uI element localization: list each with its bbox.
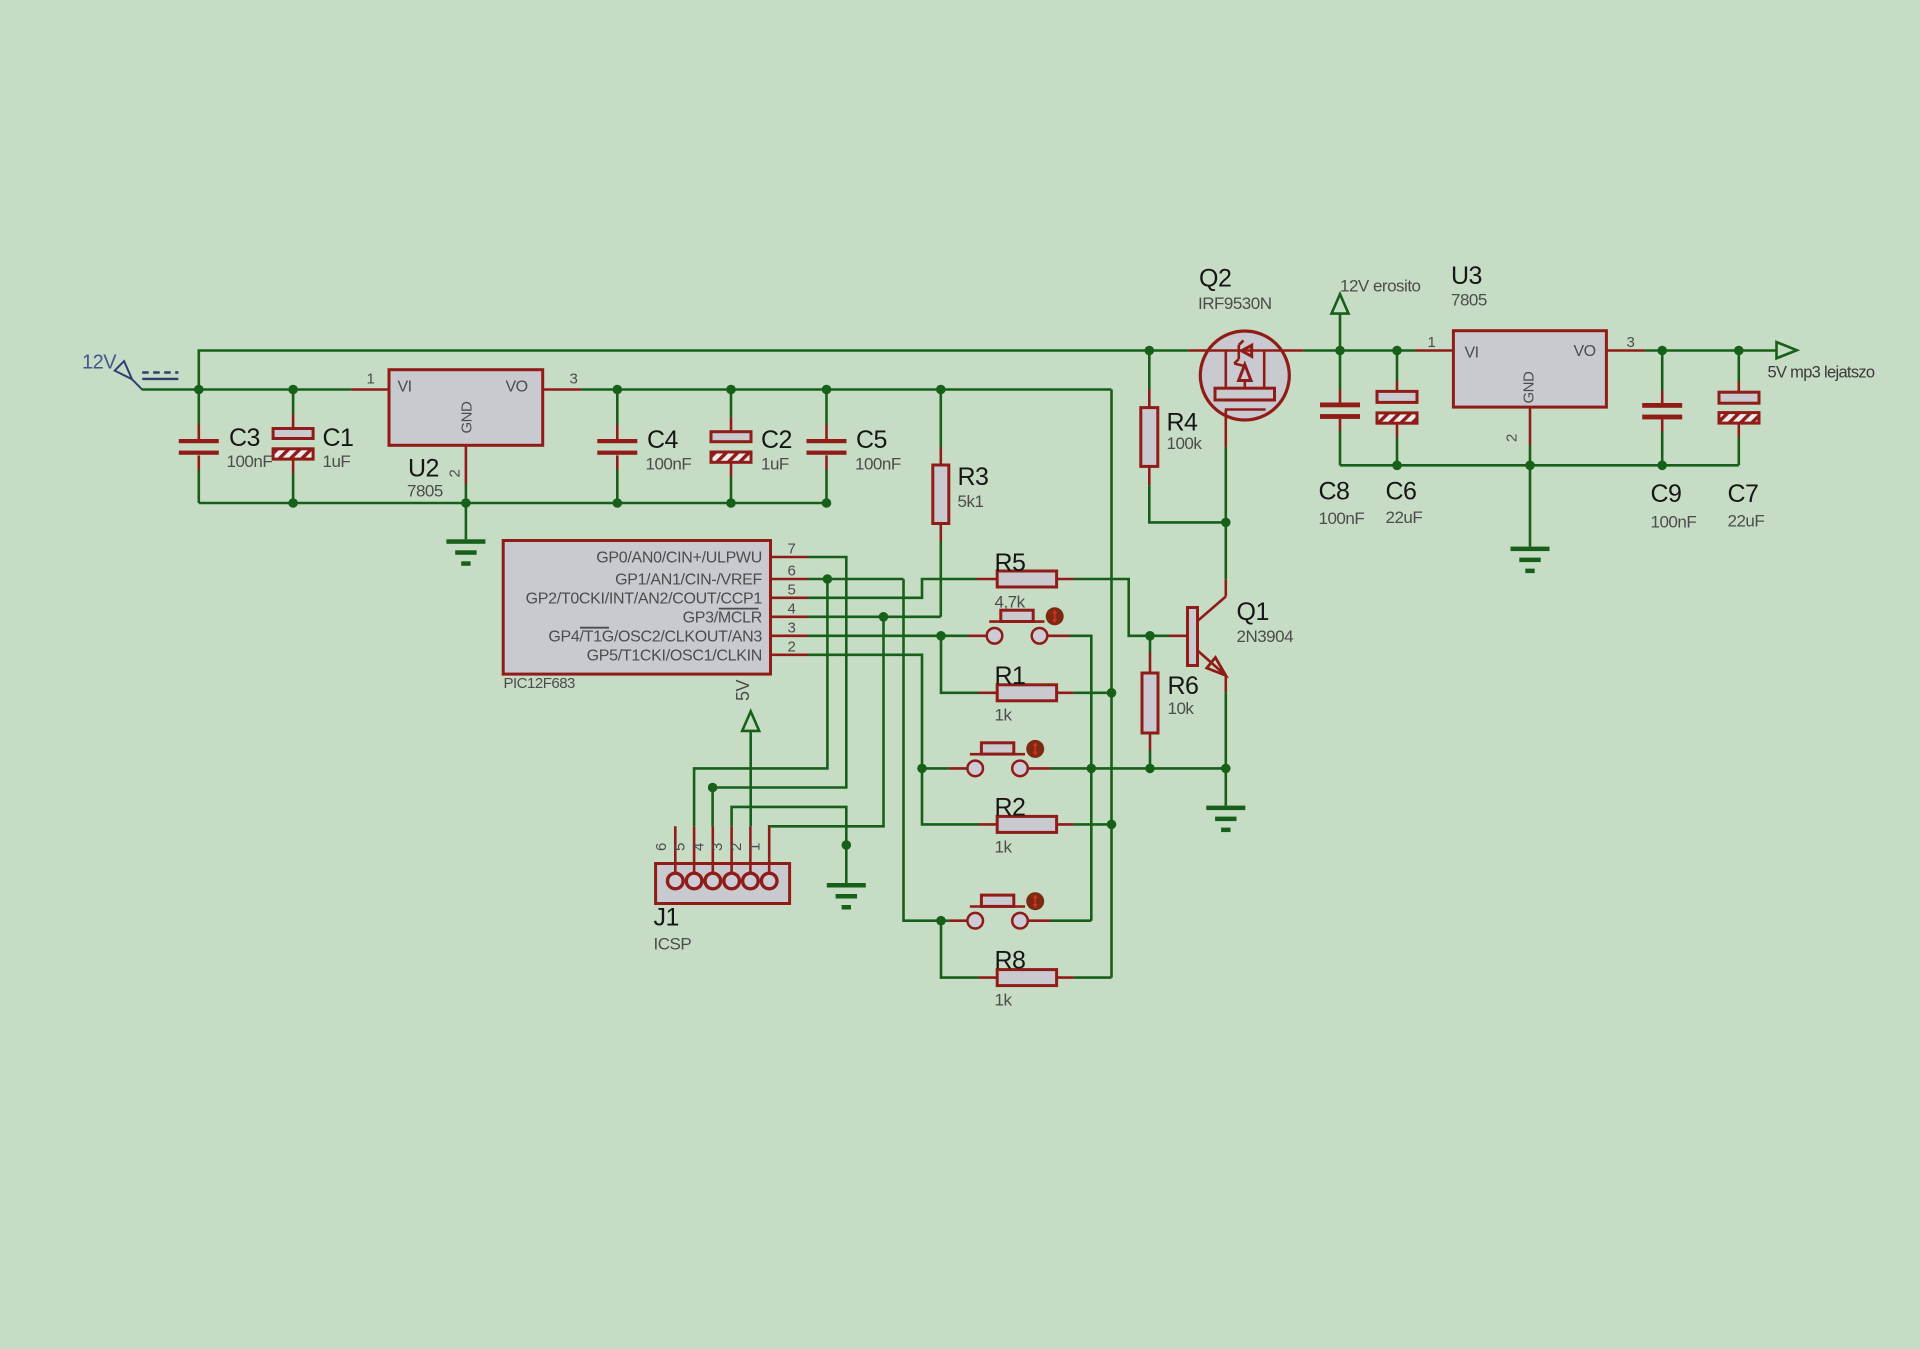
svg-text:12V: 12V bbox=[82, 352, 117, 374]
wire GP3 to J1 pin1 bbox=[769, 617, 883, 827]
svg-text:R4: R4 bbox=[1167, 409, 1199, 437]
svg-text:1k: 1k bbox=[995, 706, 1013, 725]
junction Q1 emitter bbox=[1221, 764, 1231, 774]
capacitor C9 bbox=[1642, 403, 1682, 419]
svg-text:GP1/AN1/CIN-/VREF: GP1/AN1/CIN-/VREF bbox=[615, 572, 762, 589]
label C7 value 22uF bbox=[1728, 512, 1765, 531]
supply 5V symbol bbox=[733, 679, 759, 730]
junction C9 bottom bbox=[1657, 461, 1667, 471]
U2 pin 2 GND bbox=[465, 445, 468, 484]
pushbutton S3 bbox=[949, 892, 1051, 928]
svg-text:6: 6 bbox=[653, 843, 670, 851]
label U2 pin 2 bbox=[447, 470, 464, 478]
svg-text:VI: VI bbox=[398, 379, 412, 396]
svg-text:R6: R6 bbox=[1168, 672, 1199, 700]
wire GP0 to ICSPDAT bbox=[713, 557, 847, 788]
PIC pin 4 bbox=[771, 600, 809, 617]
pushbutton S1 bbox=[968, 607, 1070, 643]
label U2 pin 1 bbox=[367, 371, 375, 388]
capacitor C2 bbox=[711, 432, 751, 463]
junction C1 top bbox=[288, 385, 298, 395]
wire GP5 to R2 bbox=[922, 768, 979, 824]
svg-text:7805: 7805 bbox=[407, 482, 443, 501]
svg-text:3: 3 bbox=[709, 843, 726, 851]
svg-text:R2: R2 bbox=[995, 794, 1026, 822]
wire 5V to J1 pin2 bbox=[749, 731, 752, 826]
PIC pin 6 bbox=[771, 563, 809, 580]
svg-text:Q1: Q1 bbox=[1237, 598, 1269, 626]
svg-text:2: 2 bbox=[447, 470, 464, 478]
resistor R8 bbox=[979, 970, 1074, 986]
PIC pin 3 bbox=[771, 619, 809, 636]
capacitor C7 bbox=[1719, 392, 1759, 423]
wire Q2 gate to Q1 collector bbox=[1225, 447, 1228, 580]
svg-text:100nF: 100nF bbox=[1651, 513, 1697, 532]
wire C2 top lead bbox=[730, 390, 733, 432]
label R4 bbox=[1167, 409, 1199, 437]
svg-text:5k1: 5k1 bbox=[958, 492, 984, 511]
label U3 pin 1 bbox=[1428, 334, 1436, 351]
wire U2 ground stem bbox=[465, 503, 468, 539]
label Q2 value IRF9530N bbox=[1198, 294, 1271, 313]
svg-text:5V mp3 lejatszo: 5V mp3 lejatszo bbox=[1768, 364, 1875, 382]
wire Q1 emitter to ground bbox=[1225, 692, 1228, 768]
wire ground bus right bbox=[1340, 464, 1739, 467]
label R2 bbox=[995, 794, 1026, 822]
svg-text:2: 2 bbox=[1504, 434, 1521, 442]
label R5 bbox=[995, 549, 1026, 577]
junction S2 right bbox=[1087, 764, 1097, 774]
junction C8 top bbox=[1335, 346, 1345, 356]
wire C8 bottom lead bbox=[1339, 419, 1342, 465]
label C4 bbox=[647, 426, 679, 454]
wire U3 GND to bus bbox=[1529, 445, 1532, 465]
pushbutton S2 bbox=[949, 740, 1051, 776]
wire S1 right drop bbox=[1070, 636, 1091, 921]
label C6 value 22uF bbox=[1386, 508, 1423, 527]
label J1 value ICSP bbox=[654, 935, 692, 954]
svg-text:4: 4 bbox=[788, 600, 796, 617]
junction R6 ground bbox=[1145, 764, 1155, 774]
svg-text:2: 2 bbox=[788, 638, 796, 655]
svg-text:C8: C8 bbox=[1319, 478, 1350, 506]
J1 pin 5 bbox=[672, 826, 695, 873]
label 12V erosito bbox=[1340, 277, 1421, 296]
junction C4 bottom bbox=[613, 498, 623, 508]
svg-text:J1: J1 bbox=[654, 904, 679, 932]
wire C8 top lead bbox=[1339, 351, 1342, 403]
junction GP3 bbox=[879, 612, 889, 622]
svg-text:GP5/T1CKI/OSC1/CLKIN: GP5/T1CKI/OSC1/CLKIN bbox=[587, 647, 762, 664]
J1 pin 4 bbox=[690, 826, 713, 873]
label C4 value 100nF bbox=[646, 455, 692, 474]
label Q1 bbox=[1237, 598, 1269, 626]
svg-text:4,7k: 4,7k bbox=[995, 593, 1026, 612]
ground under Q1 bbox=[1206, 806, 1245, 833]
svg-text:R1: R1 bbox=[995, 662, 1026, 690]
svg-text:GP3/MCLR: GP3/MCLR bbox=[683, 609, 762, 626]
resistor R4 bbox=[1141, 408, 1158, 467]
wire GP4 to R1 bbox=[941, 636, 979, 693]
svg-text:U3: U3 bbox=[1451, 262, 1482, 290]
wire 12V input bbox=[142, 388, 199, 391]
junction GP4 bbox=[936, 631, 946, 641]
svg-text:VI: VI bbox=[1465, 345, 1479, 362]
label 5V mp3 lejatszo bbox=[1768, 364, 1875, 382]
wire R4 top lead bbox=[1148, 351, 1151, 408]
wire S3 right bbox=[1051, 919, 1092, 922]
svg-text:4: 4 bbox=[690, 843, 707, 851]
svg-text:C6: C6 bbox=[1386, 478, 1417, 506]
label C6 bbox=[1386, 478, 1417, 506]
junction C7 top bbox=[1734, 346, 1744, 356]
label R6 bbox=[1168, 672, 1199, 700]
wire GP5 row bbox=[808, 655, 922, 769]
junction C2 top bbox=[726, 385, 736, 395]
label R6 value 10k bbox=[1168, 699, 1195, 718]
label R2 value 1k bbox=[995, 838, 1013, 857]
wire C7 top lead bbox=[1738, 351, 1741, 393]
PIC pin 2 bbox=[771, 638, 809, 655]
label C9 value 100nF bbox=[1651, 513, 1697, 532]
wire U2 GND to bus bbox=[465, 484, 468, 503]
junction Q1 base node bbox=[1145, 631, 1155, 641]
wire C6 top lead bbox=[1396, 351, 1399, 392]
wire R3 bottom lead bbox=[939, 524, 942, 617]
wire VO rail 5V bbox=[581, 388, 1111, 391]
label U3 bbox=[1451, 262, 1482, 290]
label C3 value 100nF bbox=[227, 452, 273, 471]
resistor R1 bbox=[979, 685, 1074, 701]
PIC pin 7 bbox=[771, 541, 809, 558]
label C5 bbox=[856, 426, 887, 454]
wire C9 bottom lead bbox=[1661, 419, 1664, 465]
wire 5V output rail bbox=[1645, 349, 1776, 352]
junction U2 GND bbox=[461, 498, 471, 508]
wire C3 top lead bbox=[198, 390, 201, 425]
wire GP1 row bbox=[808, 578, 904, 581]
wire GP3 row bbox=[808, 615, 941, 618]
wire to U2 VI bbox=[199, 388, 351, 391]
svg-text:3: 3 bbox=[788, 619, 796, 636]
label U2 bbox=[408, 455, 439, 483]
svg-text:U2: U2 bbox=[408, 455, 439, 483]
svg-text:100nF: 100nF bbox=[1319, 509, 1365, 528]
svg-text:C2: C2 bbox=[761, 426, 792, 454]
svg-text:22uF: 22uF bbox=[1728, 512, 1765, 531]
transistor Q2 IRF9530N bbox=[1188, 331, 1303, 447]
svg-text:2N3904: 2N3904 bbox=[1237, 627, 1294, 646]
wire GP1 to button S3 bbox=[904, 579, 942, 921]
svg-text:C1: C1 bbox=[323, 424, 354, 452]
svg-text:ICSP: ICSP bbox=[654, 935, 692, 954]
wire C9 top lead bbox=[1661, 351, 1664, 404]
12V input port bbox=[115, 361, 179, 390]
svg-text:1: 1 bbox=[1428, 334, 1436, 351]
resistor R3 bbox=[933, 465, 949, 524]
transistor Q1 2N3904 bbox=[1170, 579, 1226, 692]
svg-text:PIC12F683: PIC12F683 bbox=[504, 675, 576, 692]
IC PIC12F683 bbox=[503, 541, 770, 675]
wire R4 bottom to gate bbox=[1149, 466, 1226, 522]
resistor R5 bbox=[977, 571, 1074, 587]
J1 pin 1 bbox=[747, 826, 770, 873]
svg-text:Q2: Q2 bbox=[1199, 265, 1231, 293]
junction U3 GND bbox=[1525, 461, 1535, 471]
junction C1 bottom bbox=[288, 498, 298, 508]
svg-text:1k: 1k bbox=[995, 838, 1013, 857]
label U3 pin 3 bbox=[1627, 334, 1635, 351]
wire R2 to 5V rail bbox=[1074, 823, 1112, 826]
svg-text:GND: GND bbox=[1521, 371, 1538, 404]
junction Q2 gate node bbox=[1221, 518, 1231, 528]
U3 pin 3 VO bbox=[1606, 349, 1645, 352]
label PIC12F683 bbox=[504, 675, 576, 692]
wire C5 bottom lead bbox=[825, 455, 828, 503]
wire C7 bottom lead bbox=[1738, 423, 1741, 465]
label Q2 bbox=[1199, 265, 1231, 293]
svg-text:10k: 10k bbox=[1168, 699, 1195, 718]
svg-text:5V: 5V bbox=[733, 679, 753, 701]
PIC pin 5 bbox=[771, 581, 809, 598]
wire C4 bottom lead bbox=[616, 455, 619, 503]
label U3 pin 2 bbox=[1504, 434, 1521, 442]
svg-text:1uF: 1uF bbox=[761, 455, 789, 474]
resistor R2 bbox=[979, 816, 1074, 832]
wire Q1 emitter ground stem bbox=[1225, 768, 1228, 805]
junction ICSPDAT bbox=[708, 783, 718, 793]
svg-text:12V erosito: 12V erosito bbox=[1340, 277, 1421, 296]
wire 5V vertical rail bbox=[1110, 390, 1113, 978]
wire R3 top lead bbox=[939, 390, 942, 466]
wire 12V top bus bbox=[199, 351, 1188, 390]
wire R1 to 5V rail bbox=[1074, 691, 1112, 694]
connector J1 ICSP bbox=[656, 864, 790, 904]
label Q1 value 2N3904 bbox=[1237, 627, 1294, 646]
svg-text:VO: VO bbox=[1574, 343, 1596, 360]
svg-text:100nF: 100nF bbox=[855, 455, 901, 474]
U2 pin 3 VO bbox=[543, 388, 582, 391]
J1 pin 6 bbox=[653, 826, 676, 873]
svg-text:1uF: 1uF bbox=[323, 452, 351, 471]
wire ground row bbox=[1051, 767, 1226, 770]
label R8 value 1k bbox=[995, 991, 1013, 1010]
regulator U2 7805 bbox=[389, 370, 543, 446]
wire ground bus left bbox=[199, 502, 827, 505]
svg-text:22uF: 22uF bbox=[1386, 508, 1423, 527]
junction R2 5V bbox=[1107, 820, 1117, 830]
junction R4 top bbox=[1145, 346, 1155, 356]
junction R3 top bbox=[936, 385, 946, 395]
junction C5 bottom bbox=[822, 498, 832, 508]
capacitor C5 bbox=[807, 439, 847, 455]
label U2 pin 3 bbox=[570, 371, 578, 388]
wire GP4 row bbox=[808, 634, 941, 637]
wire R6 bottom lead bbox=[1149, 733, 1152, 768]
label R1 value 1k bbox=[995, 706, 1013, 725]
svg-text:GP2/T0CKI/INT/AN2/COUT/CCP1: GP2/T0CKI/INT/AN2/COUT/CCP1 bbox=[526, 590, 763, 607]
wire J1 pin3 to ground bbox=[732, 807, 847, 883]
wire GP2 to R5 bbox=[808, 579, 977, 598]
svg-text:GP0/AN0/CIN+/ULPWU: GP0/AN0/CIN+/ULPWU bbox=[596, 550, 762, 567]
junction C6 bottom bbox=[1392, 461, 1402, 471]
label C3 bbox=[229, 424, 260, 452]
ground under U3 bbox=[1511, 547, 1550, 574]
wire S3 to R8 bbox=[941, 921, 979, 978]
wire C1 bottom lead bbox=[292, 459, 295, 503]
wire Q2 drain to U3 bbox=[1304, 349, 1415, 352]
junction ground stem bbox=[842, 840, 852, 850]
U3 pin 2 GND bbox=[1529, 407, 1532, 445]
capacitor C3 bbox=[179, 425, 219, 471]
wire R5 right to Q1 base bbox=[1074, 579, 1170, 636]
wire U3 ground stem bbox=[1529, 465, 1532, 546]
label C9 bbox=[1651, 480, 1682, 508]
svg-text:5: 5 bbox=[672, 843, 689, 851]
label U3 value 7805 bbox=[1451, 291, 1487, 310]
label C7 bbox=[1728, 480, 1759, 508]
U2 pin 1 VI bbox=[351, 388, 389, 391]
wire C2 bottom lead bbox=[730, 462, 733, 503]
svg-text:C5: C5 bbox=[856, 426, 887, 454]
svg-text:GP4/T1G/OSC2/CLKOUT/AN3: GP4/T1G/OSC2/CLKOUT/AN3 bbox=[548, 628, 762, 645]
label C2 bbox=[761, 426, 792, 454]
5V output port bbox=[1777, 342, 1797, 358]
svg-text:100nF: 100nF bbox=[227, 452, 273, 471]
wire C1 top lead bbox=[292, 390, 295, 429]
junction C2 bottom bbox=[726, 498, 736, 508]
svg-text:1: 1 bbox=[747, 843, 764, 851]
wire R6 top lead bbox=[1149, 636, 1152, 673]
junction C4 top bbox=[613, 385, 623, 395]
U3 pin 1 VI bbox=[1415, 349, 1454, 352]
J1 pin 3 bbox=[709, 826, 732, 873]
label C8 value 100nF bbox=[1319, 509, 1365, 528]
junction GP5 button bbox=[917, 764, 927, 774]
wire C6 bottom lead bbox=[1396, 423, 1399, 465]
label C5 value 100nF bbox=[855, 455, 901, 474]
label U2 value 7805 bbox=[407, 482, 443, 501]
svg-text:100k: 100k bbox=[1167, 434, 1203, 453]
svg-text:GND: GND bbox=[459, 401, 476, 434]
ground near J1 bbox=[827, 883, 866, 910]
svg-text:5: 5 bbox=[788, 581, 796, 598]
wire S1 left bbox=[941, 634, 968, 637]
junction C5 top bbox=[822, 385, 832, 395]
label R8 bbox=[995, 947, 1026, 975]
svg-text:VO: VO bbox=[506, 379, 528, 396]
svg-text:7805: 7805 bbox=[1451, 291, 1487, 310]
svg-text:6: 6 bbox=[788, 563, 796, 580]
regulator U3 7805 bbox=[1453, 331, 1606, 407]
label C2 value 1uF bbox=[761, 455, 789, 474]
svg-text:C3: C3 bbox=[229, 424, 260, 452]
svg-text:1: 1 bbox=[367, 371, 375, 388]
label C8 bbox=[1319, 478, 1350, 506]
capacitor C6 bbox=[1377, 391, 1417, 423]
capacitor C1 bbox=[273, 429, 313, 460]
label R1 bbox=[995, 662, 1026, 690]
label C1 value 1uF bbox=[323, 452, 351, 471]
svg-text:R5: R5 bbox=[995, 549, 1026, 577]
label R3 value 5k1 bbox=[958, 492, 984, 511]
wire C5 top lead bbox=[825, 390, 828, 440]
label C1 bbox=[323, 424, 354, 452]
wire J1 pin4 drop bbox=[711, 788, 714, 827]
wire S3 left bbox=[941, 919, 949, 922]
svg-text:C9: C9 bbox=[1651, 480, 1682, 508]
wire R8 to 5V rail bbox=[1074, 976, 1112, 979]
resistor R6 bbox=[1142, 673, 1158, 733]
svg-text:3: 3 bbox=[570, 371, 578, 388]
label J1 bbox=[654, 904, 679, 932]
svg-text:C4: C4 bbox=[647, 426, 679, 454]
svg-text:7: 7 bbox=[788, 541, 796, 558]
ground under U2 bbox=[446, 539, 485, 566]
capacitor C4 bbox=[597, 439, 637, 455]
svg-text:R3: R3 bbox=[958, 463, 989, 491]
label R5 value 4,7k bbox=[995, 593, 1026, 612]
wire C4 top lead bbox=[616, 390, 619, 440]
junction C9 top bbox=[1657, 346, 1667, 356]
junction 12V input bbox=[194, 385, 204, 395]
wire GP1 to ICSPCLK bbox=[694, 579, 827, 826]
supply 12V erosito bbox=[1332, 294, 1349, 350]
junction GP1 bbox=[823, 574, 833, 584]
label 12V bbox=[82, 352, 117, 374]
junction R1 5V bbox=[1107, 688, 1117, 698]
junction C6 top bbox=[1392, 346, 1402, 356]
svg-text:2: 2 bbox=[728, 843, 745, 851]
junction S3 left bbox=[936, 916, 946, 926]
svg-text:IRF9530N: IRF9530N bbox=[1198, 294, 1271, 313]
label R4 value 100k bbox=[1167, 434, 1203, 453]
wire S2 left bbox=[922, 767, 949, 770]
J1 pin 2 bbox=[728, 826, 751, 873]
svg-text:C7: C7 bbox=[1728, 480, 1759, 508]
svg-text:3: 3 bbox=[1627, 334, 1635, 351]
wire C3 bottom lead bbox=[198, 470, 201, 503]
svg-text:100nF: 100nF bbox=[646, 455, 692, 474]
capacitor C8 bbox=[1320, 403, 1360, 419]
svg-text:1k: 1k bbox=[995, 991, 1013, 1010]
svg-text:R8: R8 bbox=[995, 947, 1026, 975]
label R3 bbox=[958, 463, 989, 491]
